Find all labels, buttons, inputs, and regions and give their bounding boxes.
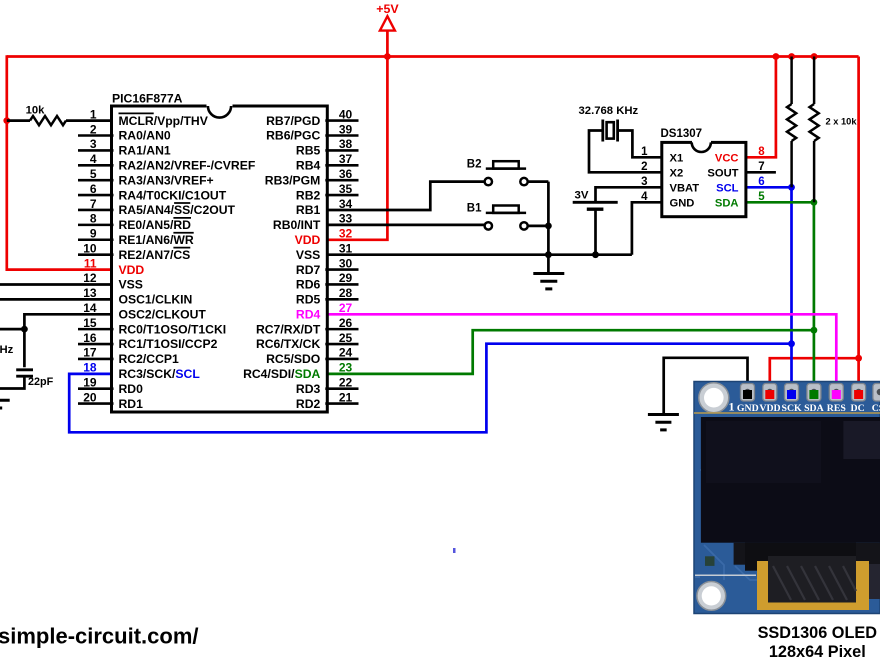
wire end square GND (black): [743, 390, 752, 399]
junction green SDA / pullup: [811, 199, 818, 206]
svg-text:12: 12: [83, 271, 97, 285]
OLED flex ribbon: [757, 556, 880, 610]
U2 pin numbers: [641, 146, 765, 203]
ground symbol below buttons: [547, 255, 550, 273]
svg-text:SDA: SDA: [804, 403, 824, 414]
power symbol +5V arrow: [380, 16, 395, 30]
junction blue route: [788, 340, 795, 347]
svg-text:32: 32: [339, 227, 353, 241]
wire OSC1 pin 13 to left edge: [0, 298, 114, 301]
svg-text:RES: RES: [827, 403, 847, 414]
ground symbol OLED: [648, 413, 679, 416]
svg-text:8: 8: [758, 146, 765, 158]
junction red DC/VDD branch: [855, 355, 862, 362]
junction VSS rail / button ground: [545, 251, 552, 258]
svg-text:RE1/AN6/WR: RE1/AN6/WR: [119, 233, 194, 247]
svg-text:26: 26: [339, 316, 353, 330]
resistor pullup 10k (SDA): [813, 57, 816, 105]
svg-text:B1: B1: [467, 203, 482, 215]
wire +5V riser from PIC pin 32 VDD: [325, 30, 387, 240]
svg-text:36: 36: [339, 167, 353, 181]
junction red rail / resistor pullup 1: [788, 53, 795, 60]
pushbutton B1: [486, 212, 526, 215]
svg-text:VBAT: VBAT: [670, 182, 700, 194]
junction red rail / VCC wire: [773, 53, 780, 60]
svg-text:10k: 10k: [26, 105, 46, 117]
OLED module SSD1306 PCB: [694, 382, 880, 614]
svg-text:1: 1: [90, 107, 97, 121]
svg-text:RB3/PGM: RB3/PGM: [265, 173, 321, 187]
svg-text:11: 11: [84, 256, 97, 270]
junction blue SCL / pullup: [788, 184, 795, 191]
svg-text:SDA: SDA: [715, 197, 739, 209]
U1 left pin numbers: [83, 107, 97, 404]
wire 22pF to left edge: [0, 376, 24, 388]
wire blue DS1307 SCL pin 6: [744, 186, 792, 189]
svg-text:3V: 3V: [575, 189, 589, 201]
svg-text:14: 14: [83, 301, 97, 315]
ground partial at left edge: [0, 399, 10, 402]
svg-text:128x64 Pixel: 128x64 Pixel: [769, 643, 866, 660]
svg-text:RC7/RX/DT: RC7/RX/DT: [256, 322, 321, 336]
svg-text:29: 29: [339, 271, 353, 285]
OLED driver bezel bump: [745, 543, 856, 571]
svg-text:32.768 KHz: 32.768 KHz: [579, 105, 639, 117]
U1 active-low overlines: [119, 113, 194, 247]
svg-text:RC2/CCP1: RC2/CCP1: [119, 352, 179, 366]
svg-text:35: 35: [339, 182, 353, 196]
svg-text:5: 5: [758, 191, 765, 203]
svg-text:Hz: Hz: [0, 344, 14, 356]
svg-text:4: 4: [90, 152, 97, 166]
svg-text:RD6: RD6: [296, 278, 321, 292]
svg-text:DS1307: DS1307: [661, 128, 703, 140]
svg-text:9: 9: [90, 227, 97, 241]
svg-text:GND: GND: [670, 197, 695, 209]
svg-text:8: 8: [90, 212, 97, 226]
OLED mounting hole top-left: [699, 383, 729, 413]
svg-text:25: 25: [339, 331, 353, 345]
wire crystal left to DS1307 X2: [589, 131, 664, 173]
wire VSS pin 31 rail: [325, 253, 632, 256]
wire end square DC (red): [854, 390, 863, 399]
svg-text:RC5/SDO: RC5/SDO: [266, 352, 320, 366]
svg-text:RD7: RD7: [296, 263, 321, 277]
battery 3V: [596, 187, 664, 201]
wire blue vertical to OLED SCK pad: [790, 187, 793, 392]
svg-text:RD1: RD1: [119, 397, 144, 411]
svg-text:MCLR/Vpp/THV: MCLR/Vpp/THV: [119, 114, 209, 128]
U1 right pin stubs: [325, 121, 358, 404]
svg-text:VCC: VCC: [715, 152, 739, 164]
wire green RC4/SDA pin 23 route: [325, 330, 814, 374]
svg-text:VDD: VDD: [295, 233, 321, 247]
svg-text:OSC2/CLKOUT: OSC2/CLKOUT: [119, 307, 207, 321]
wire green vertical to OLED SDA pad: [813, 202, 816, 392]
svg-text:5: 5: [90, 167, 97, 181]
svg-text:PIC16F877A: PIC16F877A: [112, 91, 183, 105]
svg-text:30: 30: [339, 256, 353, 270]
svg-text:SSD1306 OLED: SSD1306 OLED: [758, 624, 878, 642]
OLED glass panel: [701, 417, 880, 543]
U1 right pin numbers: [339, 107, 353, 404]
svg-text:RB0/INT: RB0/INT: [273, 218, 321, 232]
svg-text:23: 23: [339, 361, 353, 375]
svg-text:3: 3: [641, 176, 647, 188]
IC U2 DS1307 body: [662, 142, 746, 216]
wire red to OLED DC pad: [857, 358, 860, 392]
wire +5V top rail: [7, 55, 859, 58]
wire DS1307 GND pin 4: [632, 202, 664, 254]
resistor pullup 10k (SCL): [790, 57, 793, 105]
OLED silkscreen line: [695, 574, 756, 576]
svg-text:RA3/AN3/VREF+: RA3/AN3/VREF+: [119, 173, 214, 187]
svg-text:RD4: RD4: [296, 307, 321, 321]
wire PIC pin 34 RB1 to button B2: [325, 182, 484, 210]
wire end square SDA (green): [809, 390, 818, 399]
resistor 10k MCLR pullup: [7, 119, 30, 122]
svg-text:3: 3: [90, 137, 97, 151]
junction red rail / resistor pullup 2: [811, 53, 818, 60]
U1 left pin labels: [119, 114, 256, 411]
svg-text:RB5: RB5: [296, 144, 321, 158]
svg-text:X1: X1: [670, 152, 684, 164]
svg-text:RA5/AN4/SS/C2OUT: RA5/AN4/SS/C2OUT: [119, 203, 236, 217]
svg-text:RC3/SCK/SCL: RC3/SCK/SCL: [119, 367, 201, 381]
svg-text:SCK: SCK: [782, 403, 803, 414]
svg-text:RC0/T1OSO/T1CKI: RC0/T1OSO/T1CKI: [119, 322, 227, 336]
wire DS1307 SOUT pin 7 stub: [744, 171, 776, 174]
svg-text:19: 19: [83, 376, 97, 390]
svg-text:VDD: VDD: [119, 263, 145, 277]
svg-text:RC4/SDI/SDA: RC4/SDI/SDA: [243, 367, 320, 381]
svg-text:38: 38: [339, 137, 353, 151]
OLED gold separation line: [694, 412, 880, 414]
svg-text:RB2: RB2: [296, 188, 321, 202]
OLED header pads: [741, 384, 880, 402]
wire PIC pin 33 RB0/INT to button B1: [325, 224, 484, 227]
wire green DS1307 SDA pin 5: [744, 201, 814, 204]
svg-text:31: 31: [339, 241, 353, 255]
svg-text:SOUT: SOUT: [707, 167, 738, 179]
wire blue RC3/SCL pin 18 long route to OLED SCK: [69, 344, 791, 433]
wire end square SCK (blue): [787, 390, 796, 399]
svg-text:VSS: VSS: [296, 248, 320, 262]
wire +5V right rail down to OLED: [857, 57, 860, 359]
svg-text:2: 2: [641, 161, 647, 173]
svg-text:16: 16: [83, 331, 97, 345]
svg-text:4: 4: [641, 191, 648, 203]
svg-text:RB1: RB1: [296, 203, 321, 217]
svg-text:2 x 10k: 2 x 10k: [826, 116, 858, 126]
svg-text:VDD: VDD: [759, 403, 780, 414]
svg-text:17: 17: [83, 346, 97, 360]
svg-text:6: 6: [90, 182, 97, 196]
wire VSS pin 12 to left edge: [0, 283, 114, 286]
svg-text:18: 18: [83, 361, 97, 375]
svg-text:+5V: +5V: [376, 2, 399, 16]
svg-text:7: 7: [758, 161, 764, 173]
wire +5V left drop to VDD pin 11: [7, 55, 114, 269]
U2 pin labels: [670, 152, 739, 209]
wire OSC2 pin 14 to 22pF cap: [24, 314, 113, 367]
svg-text:SCL: SCL: [716, 182, 739, 194]
svg-text:1: 1: [729, 400, 735, 414]
svg-text:39: 39: [339, 122, 353, 136]
svg-text:34: 34: [339, 197, 353, 211]
svg-text:RD2: RD2: [296, 397, 321, 411]
wire crystal right to DS1307 X1: [618, 131, 664, 158]
svg-text:CS: CS: [872, 403, 880, 414]
svg-text:1: 1: [641, 146, 648, 158]
svg-text:X2: X2: [670, 167, 684, 179]
svg-text:RD0: RD0: [119, 382, 144, 396]
svg-text:RA0/AN0: RA0/AN0: [119, 129, 171, 143]
svg-text:RB4: RB4: [296, 158, 321, 172]
U1 left pin stubs: [78, 135, 114, 403]
OLED small component: [705, 556, 715, 566]
wire crystal stub from left edge: [0, 328, 24, 331]
junction battery minus / rail: [592, 251, 599, 258]
svg-text:7: 7: [90, 197, 97, 211]
svg-text:RD3: RD3: [296, 382, 321, 396]
OLED pin labels: [729, 400, 880, 414]
junction green route: [811, 327, 818, 334]
svg-text:RB6/PGC: RB6/PGC: [266, 129, 320, 143]
stray blue mark: [453, 548, 456, 553]
OLED mounting hole bottom-left: [697, 582, 726, 611]
crystal 32.768 KHz: [601, 120, 604, 142]
junction red rail left / resistor R1: [3, 117, 10, 124]
svg-text:24: 24: [339, 346, 353, 360]
svg-text:RD5: RD5: [296, 293, 321, 307]
wire OLED GND pad to ground: [664, 358, 748, 413]
pushbutton B2: [486, 167, 526, 170]
svg-text:OSC1/CLKIN: OSC1/CLKIN: [119, 293, 193, 307]
U1 right pin labels: [243, 114, 321, 411]
svg-text:22: 22: [339, 376, 353, 390]
svg-text:33: 33: [339, 212, 353, 226]
junction crystal / OSC2 drop: [21, 326, 28, 333]
svg-text:B2: B2: [467, 158, 482, 170]
svg-text:RA4/T0CKI/C1OUT: RA4/T0CKI/C1OUT: [119, 188, 227, 202]
svg-text:RE2/AN7/CS: RE2/AN7/CS: [119, 248, 191, 262]
IC U1 PIC16F877A body: [112, 106, 328, 412]
svg-text:RA2/AN2/VREF-/CVREF: RA2/AN2/VREF-/CVREF: [119, 158, 256, 172]
svg-text:37: 37: [339, 152, 353, 166]
svg-text:27: 27: [339, 301, 353, 315]
wire end square RES (magenta): [832, 390, 841, 399]
svg-text:simple-circuit.com/: simple-circuit.com/: [0, 624, 199, 649]
svg-text:RA1/AN1: RA1/AN1: [119, 144, 171, 158]
junction B1 / ground vertical: [545, 223, 552, 230]
wire end square VDD (red): [765, 390, 774, 399]
wire buttons right side to ground: [528, 180, 549, 183]
svg-text:22pF: 22pF: [28, 376, 54, 388]
svg-text:VSS: VSS: [119, 278, 143, 292]
capacitor 22pF: [16, 368, 33, 371]
svg-text:40: 40: [339, 107, 353, 121]
wire red branch to OLED VDD pad: [770, 358, 859, 392]
svg-text:DC: DC: [851, 403, 865, 414]
svg-text:RB7/PGD: RB7/PGD: [266, 114, 320, 128]
svg-text:21: 21: [339, 390, 353, 404]
svg-text:6: 6: [758, 176, 764, 188]
svg-text:10: 10: [83, 241, 97, 255]
svg-text:13: 13: [83, 286, 97, 300]
junction red rail / +5V riser: [384, 53, 391, 60]
wire magenta RD4 pin 27 to OLED RES pad: [325, 314, 836, 392]
svg-text:2: 2: [90, 122, 97, 136]
svg-text:28: 28: [339, 286, 353, 300]
svg-text:RC6/TX/CK: RC6/TX/CK: [256, 337, 321, 351]
svg-text:RC1/T1OSI/CCP2: RC1/T1OSI/CCP2: [119, 337, 218, 351]
svg-text:20: 20: [83, 390, 97, 404]
svg-text:15: 15: [83, 316, 97, 330]
svg-text:GND: GND: [737, 403, 759, 414]
wire VCC DS1307 pin 8 to rail: [744, 57, 776, 158]
svg-text:RE0/AN5/RD: RE0/AN5/RD: [119, 218, 192, 232]
